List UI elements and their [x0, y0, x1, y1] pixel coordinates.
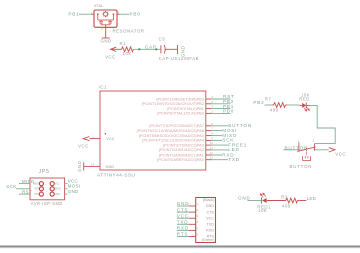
svg-text:PB0: PB0	[223, 109, 234, 114]
svg-text:(PCINT8/XTAL1/CLKI)PB0: (PCINT8/XTAL1/CLKI)PB0	[157, 112, 204, 116]
svg-text:(PCINT7/ICP/OC0B/ADC7)PA7: (PCINT7/ICP/OC0B/ADC7)PA7	[149, 124, 204, 128]
svg-text:499: 499	[282, 204, 291, 209]
svg-text:ATTINY44-SSU: ATTINY44-SSU	[97, 173, 135, 179]
svg-text:RST: RST	[22, 189, 32, 194]
svg-text:3: 3	[211, 105, 213, 109]
svg-text:6: 6	[197, 232, 199, 236]
svg-text:MOSI: MOSI	[68, 184, 80, 189]
svg-text:R7: R7	[265, 96, 272, 101]
svg-text:GND: GND	[238, 196, 251, 201]
svg-text:CTS: CTS	[207, 210, 215, 214]
svg-text:BUTTON: BUTTON	[290, 164, 313, 169]
svg-text:499: 499	[270, 107, 279, 112]
svg-text:3: 3	[197, 214, 199, 218]
svg-text:GND: GND	[106, 165, 115, 169]
svg-text:VCC: VCC	[206, 216, 214, 220]
svg-text:MISO: MISO	[22, 179, 35, 184]
svg-text:(PCINT11/RESET/DW)PB3: (PCINT11/RESET/DW)PB3	[156, 97, 204, 101]
svg-text:(PCINT1/AIN0/ADC1)PA1: (PCINT1/AIN0/ADC1)PA1	[159, 153, 204, 157]
svg-text:GND: GND	[177, 201, 190, 206]
svg-text:RXD: RXD	[206, 229, 214, 233]
svg-text:(Green): (Green)	[202, 238, 215, 242]
svg-text:XTAL: XTAL	[94, 4, 103, 8]
svg-text:SCK: SCK	[6, 184, 17, 189]
svg-text:GND: GND	[206, 204, 215, 208]
svg-text:CTS: CTS	[177, 207, 189, 212]
svg-text:7: 7	[211, 127, 213, 131]
svg-text:C3: C3	[159, 37, 166, 42]
svg-text:IC1: IC1	[99, 85, 107, 90]
svg-text:GND: GND	[68, 189, 79, 194]
svg-text:R1: R1	[120, 41, 127, 46]
svg-text:VCC: VCC	[105, 55, 116, 60]
svg-text:3: 3	[118, 11, 120, 15]
svg-text:GND: GND	[101, 39, 112, 44]
svg-text:(PCINT3/T0/ADC3)PA3: (PCINT3/T0/ADC3)PA3	[163, 143, 204, 147]
svg-text:10K: 10K	[123, 51, 132, 56]
svg-text:9: 9	[211, 136, 213, 140]
svg-text:10K: 10K	[258, 208, 267, 213]
svg-text:CAP: CAP	[145, 45, 157, 50]
svg-text:(PCINT2/AIN1/ADC2)PA2: (PCINT2/AIN1/ADC2)PA2	[159, 148, 204, 152]
svg-text:PB0: PB0	[130, 11, 141, 16]
svg-text:AVR-ISP-SMD: AVR-ISP-SMD	[31, 201, 63, 206]
svg-text:TXD: TXD	[228, 157, 240, 162]
svg-text:5: 5	[197, 226, 199, 230]
svg-text:PB1: PB1	[68, 11, 79, 16]
svg-text:VCC: VCC	[177, 213, 189, 218]
svg-text:VCC: VCC	[78, 144, 89, 149]
svg-text:13: 13	[210, 156, 214, 160]
svg-text:10: 10	[210, 141, 214, 145]
svg-text:2: 2	[197, 208, 199, 212]
svg-text:1: 1	[91, 11, 93, 15]
svg-text:2: 2	[313, 138, 315, 142]
svg-text:GND: GND	[55, 194, 60, 196]
svg-text:RESONATOR: RESONATOR	[113, 29, 145, 34]
svg-text:VCC: VCC	[55, 183, 60, 185]
svg-text:(PCINT6/OC1A/SDA/MOSI/ADC6)PA6: (PCINT6/OC1A/SDA/MOSI/ADC6)PA6	[136, 129, 204, 133]
svg-text:5: 5	[211, 100, 213, 104]
svg-text:1: 1	[197, 202, 199, 206]
svg-text:GND: GND	[77, 161, 82, 172]
svg-text:(PCINT5/MISO/DO/OC1B/ADC5)PA5: (PCINT5/MISO/DO/OC1B/ADC5)PA5	[139, 134, 204, 138]
svg-text:4: 4	[298, 139, 300, 143]
svg-text:MOSI: MOSI	[55, 189, 61, 191]
svg-text:CAP-US1206FAB: CAP-US1206FAB	[159, 56, 199, 61]
svg-text:RED: RED	[299, 96, 309, 101]
svg-text:LED: LED	[307, 196, 316, 201]
svg-text:SCK: SCK	[34, 189, 39, 191]
svg-text:12: 12	[210, 151, 214, 155]
svg-text:TXD: TXD	[207, 223, 215, 227]
svg-text:1: 1	[92, 135, 94, 139]
svg-text:8: 8	[211, 132, 213, 136]
svg-text:TXD: TXD	[177, 220, 189, 225]
svg-text:(PCINT4/T1/SCL/USCK/ADC4)PA4: (PCINT4/T1/SCL/USCK/ADC4)PA4	[142, 139, 204, 143]
svg-text:(PCINT10/INT0/OC0A/CKOUT)PB2: (PCINT10/INT0/OC0A/CKOUT)PB2	[141, 102, 204, 106]
svg-text:14: 14	[91, 162, 95, 166]
svg-text:RTS: RTS	[207, 235, 215, 239]
svg-text:VCC: VCC	[106, 137, 114, 141]
svg-text:2: 2	[101, 27, 103, 31]
svg-text:BUTTON: BUTTON	[285, 145, 309, 150]
svg-text:2: 2	[211, 109, 213, 113]
svg-text:(Black): (Black)	[203, 198, 215, 202]
svg-text:JP5: JP5	[39, 169, 50, 175]
svg-text:RTS: RTS	[177, 232, 189, 237]
svg-text:PB2: PB2	[253, 100, 264, 105]
svg-text:6: 6	[211, 122, 213, 126]
svg-text:(PCINT9/XTAL2)PB1: (PCINT9/XTAL2)PB1	[167, 107, 204, 111]
svg-text:VCC: VCC	[335, 151, 346, 156]
svg-text:RXD: RXD	[177, 226, 189, 231]
svg-text:(PCINT0/AREF/ADC0)PA0: (PCINT0/AREF/ADC0)PA0	[157, 158, 204, 162]
svg-text:11: 11	[210, 146, 214, 150]
svg-text:4: 4	[197, 220, 199, 224]
svg-text:RST: RST	[34, 194, 39, 196]
svg-text:4: 4	[211, 95, 213, 99]
